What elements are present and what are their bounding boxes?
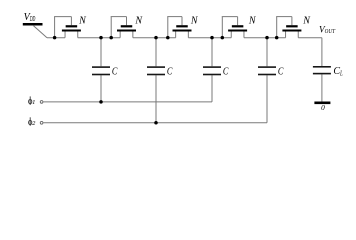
capacitor C2 [147,38,165,123]
junction C2 on phi2 [154,121,158,125]
capacitor C4 [258,38,276,123]
svg-text:C: C [112,67,118,78]
transistor M3 [167,17,191,38]
svg-text:N: N [190,16,199,27]
wire M5 source to output corner [298,37,322,39]
ground 0 [314,102,330,105]
junction node4 cap C4 [265,36,269,40]
wire VDD node to M1 drain [47,37,65,39]
svg-text:N: N [302,16,311,27]
junction node3 cap C3 [210,36,214,40]
wire M4 source to M5 drain [244,37,286,39]
capacitor C1 [92,38,110,102]
phi1 clock line [40,101,212,104]
junction node3 M4 gate [221,36,225,40]
svg-text:1: 1 [32,99,35,106]
capacitor C3 [203,38,221,102]
transistor M5 [276,17,301,38]
transistor M1 [54,17,81,38]
wire M1 source to M2 drain [78,37,120,39]
transistor M2 [111,17,136,38]
junction node1 cap C1 [99,36,103,40]
wire VDD diagonal lead [34,26,48,38]
label phi1 [29,96,32,105]
phi2 clock line [40,121,267,124]
VDD supply bar [23,23,43,26]
svg-text:C: C [223,67,229,78]
junction node4 M5 gate [275,36,279,40]
wire M3 source to M4 drain [188,37,231,39]
wire M2 source to M3 drain [133,37,176,39]
svg-text:0: 0 [321,103,325,112]
svg-text:2: 2 [32,120,36,127]
wire output down to CL [321,38,323,67]
svg-text:N: N [248,16,257,27]
svg-text:N: N [78,16,87,27]
junction node VDD / M1 gate [53,36,57,40]
transistor M4 [222,17,247,38]
svg-text:VDD: VDD [24,12,36,23]
junction C1 on phi1 [99,100,103,104]
label phi2 [29,117,32,126]
svg-text:C: C [278,67,284,78]
svg-text:VOUT: VOUT [319,24,335,35]
junction node1 M2 gate [109,36,113,40]
svg-text:C: C [167,67,173,78]
junction node2 cap C2 [154,36,158,40]
svg-text:N: N [134,16,143,27]
svg-text:CL: CL [333,66,342,77]
junction node2 M3 gate [166,36,170,40]
capacitor CL [313,66,331,102]
